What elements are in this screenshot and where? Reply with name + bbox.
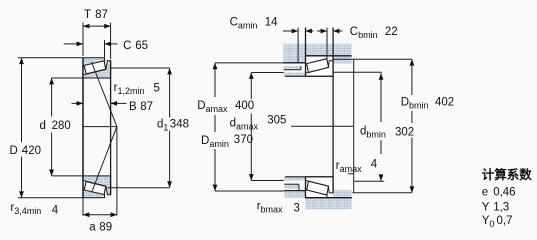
svg-text:402: 402 [435,96,454,108]
db extension bottom [354,180,384,182]
svg-text:3: 3 [294,203,300,215]
Ca extension line (shoulder face) [297,28,299,63]
dimension Db min 402 [411,59,413,95]
inner ring (cone) top section [83,61,111,78]
housing backing shoulder top right (Db) [333,56,352,64]
shaft abutment ring top (da) [284,73,306,77]
housing backing shoulder bottom right (Db) [333,190,352,198]
cone back face line + Cb ext (right fig) [332,28,334,193]
svg-text:280: 280 [52,120,71,132]
svg-text:计算系数: 计算系数 [482,167,533,182]
svg-text:65: 65 [135,40,148,52]
svg-text:Y: Y [482,201,490,213]
tapered roller top [84,61,106,74]
da extension bottom [251,180,283,182]
dimension d 280 [51,78,53,117]
svg-text:305: 305 [267,114,286,126]
shaft line top (bore) [285,75,333,77]
dimension da max 305 dimension line [250,73,252,100]
svg-text:0,7: 0,7 [497,215,513,227]
dimension Ca min 14 [283,30,298,32]
housing shoulder face bottom [284,190,305,192]
housing shoulder bottom left [284,191,305,198]
d1 extension line top [111,67,170,69]
svg-text:302: 302 [395,127,414,139]
outer ring (cup) bottom section [83,189,105,198]
svg-text:e: e [482,186,488,198]
inner ring (cone) bottom section [83,176,111,195]
dimension B 87 [72,102,84,104]
Da extension bottom [215,190,284,192]
svg-text:22: 22 [385,26,398,38]
svg-text:14: 14 [265,16,278,28]
left face line (cup back face) [82,58,84,198]
svg-text:d: d [40,120,46,132]
dimension Da max 400 / Da min 370 [214,63,216,97]
cone top section (right fig) [306,61,334,77]
cup top section (right fig) [306,56,328,65]
Cb left extension (cup front face) [326,28,328,56]
svg-text:5: 5 [154,83,160,95]
Da min ring edge bottom [284,183,299,185]
bore extension line top [52,77,83,79]
bore extension line bottom [52,175,83,177]
contact line upper [92,62,117,127]
Da extension top [215,62,283,64]
svg-text:400: 400 [235,100,254,112]
housing bore line top [306,55,352,57]
shaft line bottom (bore) [285,176,333,178]
axis segment through pressure centre [83,126,118,128]
svg-text:348: 348 [170,118,189,130]
da extension top [251,72,283,74]
svg-text:B: B [129,101,137,113]
housing bore line bottom [306,197,352,199]
extension of left face down to a dimension [82,198,84,216]
housing shoulder face top [283,62,305,64]
svg-text:370: 370 [234,134,253,146]
contact line lower [92,127,117,192]
housing band bottom [306,199,352,210]
Da min ring right edge top [300,66,302,70]
svg-text:0,46: 0,46 [493,186,515,198]
cup back face line + Ca ext (right fig) [305,28,307,77]
svg-text:1,3: 1,3 [493,201,509,213]
housing band top [283,44,351,56]
svg-text:a: a [89,222,96,234]
outer ring (cup) top section [83,58,105,67]
OD extension line top [18,57,83,59]
housing shoulder top left [283,56,305,63]
dimension C 65 [104,40,106,57]
Da min shoulder ring bottom [284,184,299,189]
svg-text:4: 4 [371,158,378,170]
Db extension bottom [353,192,412,194]
cone back face line [110,61,112,195]
db extension top [333,71,382,73]
extension line from pressure centre for a [116,127,118,216]
d1 extension line bottom [108,187,170,189]
dimension Cb min 22 [317,30,327,32]
svg-text:420: 420 [22,145,41,157]
Db extension top [333,58,412,60]
roller bottom (right fig) [307,181,329,195]
dimension d1 348 [169,68,171,118]
svg-text:C: C [123,40,131,52]
right boundary line [353,59,355,193]
cone bottom section (right fig) [306,177,334,193]
shaft abutment ring bottom (da) [284,178,306,181]
tapered roller bottom [84,182,106,195]
svg-text:89: 89 [99,222,112,234]
svg-text:87: 87 [140,101,153,113]
Da min ring edge top [284,69,301,71]
cup bottom section (right fig) [306,189,328,198]
svg-text:4: 4 [52,204,59,216]
Da min ring right edge bottom [298,184,300,190]
roller top (right fig) [307,59,329,73]
Da min shoulder ring top [284,66,301,70]
dimension T 87 [82,23,84,57]
OD extension line bottom [18,197,83,199]
dimension D 420 [21,58,23,142]
dimension a 89 [83,214,117,216]
axis line (right fig) [291,125,353,127]
dimension db min 302 [380,73,382,122]
svg-text:D: D [10,145,18,157]
svg-text:T: T [84,9,91,21]
svg-text:87: 87 [95,9,108,21]
